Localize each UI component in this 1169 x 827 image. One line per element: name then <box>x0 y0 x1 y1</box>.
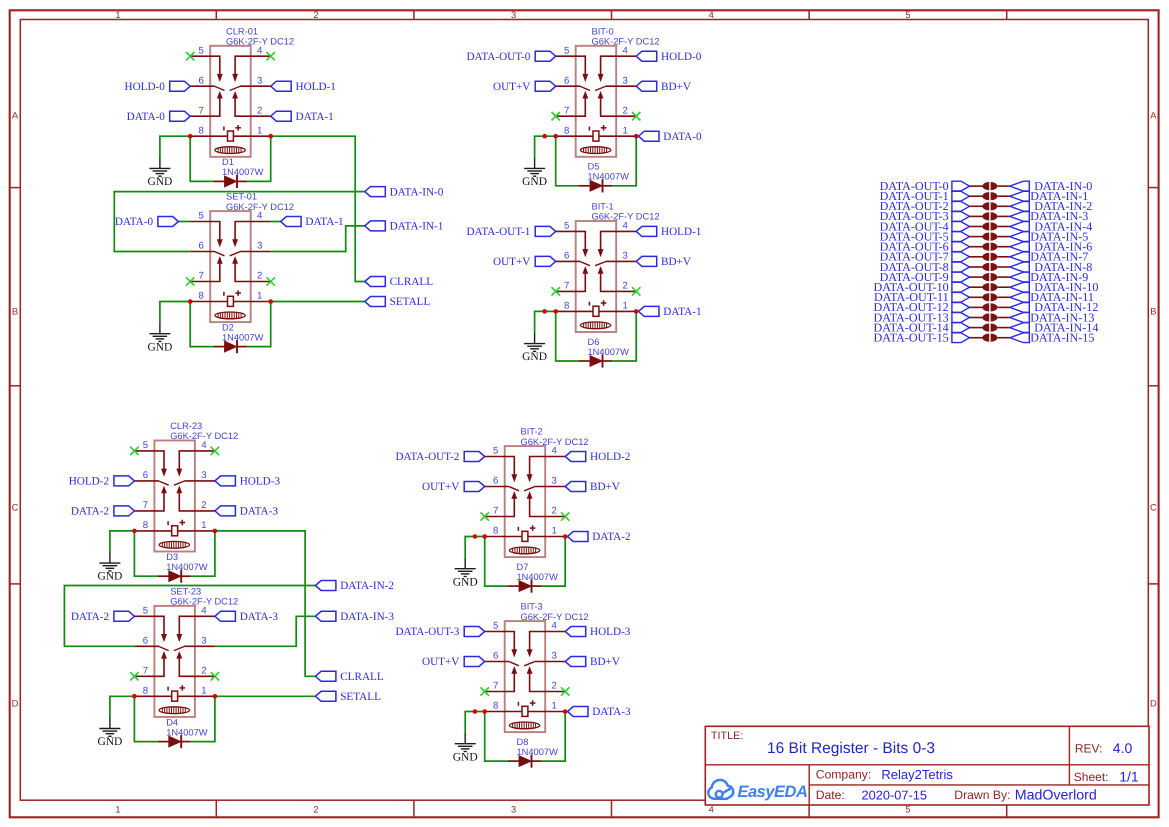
svg-text:7: 7 <box>493 681 498 692</box>
net flag DATA-IN-7 <box>1010 250 1089 264</box>
junction BIT-0 pin8 <box>553 134 558 139</box>
svg-text:2020-07-15: 2020-07-15 <box>862 788 927 803</box>
wire BIT-1 pin8 to GND <box>535 311 556 332</box>
wire DATA-OUT-10 to jumper J10 <box>970 286 983 288</box>
svg-text:4.0: 4.0 <box>1113 740 1133 756</box>
svg-text:HOLD-3: HOLD-3 <box>590 626 631 638</box>
wire DATA-OUT-8 to jumper J8 <box>970 266 983 268</box>
svg-text:REV:: REV: <box>1075 742 1103 756</box>
svg-text:DATA-IN-0: DATA-IN-0 <box>390 186 444 198</box>
net flag DATA-0 <box>639 131 702 143</box>
net flag HOLD-1 <box>271 81 336 93</box>
no-connect X (BIT-2 pin2) <box>561 512 569 520</box>
wire jumper J4 to DATA-IN-4 <box>998 226 1010 228</box>
svg-text:4: 4 <box>257 211 263 222</box>
wire DATA-IN-2 to SET-23 pin6 <box>64 586 315 647</box>
svg-text:8: 8 <box>493 526 498 537</box>
relay CLR-01 G6K-2F-Y DC12 <box>190 26 294 157</box>
svg-text:DATA-2: DATA-2 <box>71 611 109 623</box>
wire DATA-OUT-14 to jumper J14 <box>970 327 983 329</box>
svg-text:6: 6 <box>199 75 204 86</box>
wire jumper J7 to DATA-IN-7 <box>998 256 1010 258</box>
svg-text:G6K-2F-Y DC12: G6K-2F-Y DC12 <box>226 37 294 47</box>
jumper J11 (DATA-OUT-11/DATA-IN-11) <box>982 293 997 301</box>
svg-text:16 Bit Register - Bits 0-3: 16 Bit Register - Bits 0-3 <box>767 740 935 757</box>
svg-text:GND: GND <box>453 751 478 763</box>
svg-text:OUT+V: OUT+V <box>422 481 459 493</box>
junction BIT-2 GND tee <box>473 534 478 539</box>
wire jumper J1 to DATA-IN-1 <box>998 195 1010 197</box>
net flag DATA-IN-0 <box>1010 179 1093 193</box>
junction SET-23 pin1 <box>213 694 218 699</box>
net flag DATA-OUT-9 <box>880 270 970 284</box>
net flag DATA-OUT-15 <box>874 331 970 345</box>
svg-text:D4: D4 <box>166 717 178 727</box>
svg-text:G6K-2F-Y DC12: G6K-2F-Y DC12 <box>521 437 589 447</box>
wire SET-23 pin8 to D4 anode <box>134 696 157 741</box>
junction SET-01 pin1 <box>268 299 273 304</box>
svg-text:4: 4 <box>552 621 558 632</box>
svg-text:1: 1 <box>257 291 262 302</box>
svg-text:Relay2Tetris: Relay2Tetris <box>881 767 953 782</box>
svg-text:HOLD-2: HOLD-2 <box>69 476 109 488</box>
svg-text:3: 3 <box>511 10 516 20</box>
svg-text:7: 7 <box>564 105 569 116</box>
jumper J12 (DATA-OUT-12/DATA-IN-12) <box>982 303 997 311</box>
svg-text:4: 4 <box>201 440 207 451</box>
wire CLR-23 pin1 to CLRALL <box>215 531 316 676</box>
ground GND (CLR-23) <box>97 552 122 583</box>
svg-text:2: 2 <box>623 105 628 116</box>
svg-text:5: 5 <box>564 221 569 232</box>
net flag DATA-OUT-7 <box>880 250 970 264</box>
svg-text:CLRALL: CLRALL <box>390 276 434 288</box>
svg-text:DATA-3: DATA-3 <box>240 611 279 623</box>
svg-text:8: 8 <box>199 291 204 302</box>
svg-text:CLR-01: CLR-01 <box>226 26 258 36</box>
net flag OUT+V <box>422 481 485 493</box>
Date field <box>816 788 927 803</box>
svg-text:HOLD-3: HOLD-3 <box>240 476 281 488</box>
svg-text:DATA-0: DATA-0 <box>663 131 702 143</box>
svg-text:DATA-2: DATA-2 <box>71 506 109 518</box>
jumper J10 (DATA-OUT-10/DATA-IN-10) <box>982 283 997 291</box>
relay SET-23 G6K-2F-Y DC12 <box>134 586 238 717</box>
diode D2 1N4007W <box>214 322 264 353</box>
ground GND (BIT-3) <box>453 733 478 764</box>
svg-text:A: A <box>12 110 19 120</box>
svg-text:8: 8 <box>564 125 569 136</box>
net flag DATA-IN-0 <box>365 186 444 198</box>
jumper J5 (DATA-OUT-5/DATA-IN-5) <box>982 233 997 241</box>
net flag DATA-OUT-2 <box>880 199 970 213</box>
svg-text:4: 4 <box>623 221 629 232</box>
svg-text:8: 8 <box>199 125 204 136</box>
jumper J8 (DATA-OUT-8/DATA-IN-8) <box>982 263 997 271</box>
svg-text:SET-01: SET-01 <box>226 192 257 202</box>
ground GND (SET-01) <box>147 323 172 354</box>
relay BIT-3 G6K-2F-Y DC12 <box>485 602 589 733</box>
Sheet field <box>1074 769 1139 785</box>
jumper J14 (DATA-OUT-14/DATA-IN-14) <box>982 324 997 332</box>
svg-text:2: 2 <box>552 506 557 517</box>
svg-text:D: D <box>12 698 19 708</box>
net flag DATA-OUT-8 <box>880 260 970 274</box>
svg-text:HOLD-1: HOLD-1 <box>661 226 701 238</box>
svg-text:DATA-IN-1: DATA-IN-1 <box>390 221 444 233</box>
svg-text:GND: GND <box>147 176 172 188</box>
svg-text:7: 7 <box>493 506 498 517</box>
svg-text:5: 5 <box>143 606 148 617</box>
diode D3 1N4007W <box>158 552 208 583</box>
svg-text:1N4007W: 1N4007W <box>517 747 559 757</box>
wire CLR-23 pin8 to D3 anode <box>134 531 157 576</box>
REV field <box>1075 740 1133 756</box>
diode D5 1N4007W <box>579 162 629 193</box>
svg-text:DATA-0: DATA-0 <box>115 216 154 228</box>
wire jumper J13 to DATA-IN-13 <box>998 317 1010 319</box>
junction BIT-0 GND tee <box>542 134 547 139</box>
svg-text:C: C <box>1150 502 1157 512</box>
svg-text:DATA-OUT-15: DATA-OUT-15 <box>874 331 949 345</box>
net flag DATA-2 <box>71 506 135 518</box>
net flag DATA-1 <box>639 306 702 318</box>
svg-text:DATA-1: DATA-1 <box>296 111 334 123</box>
net flag OUT+V <box>493 81 556 93</box>
net flag DATA-OUT-4 <box>880 219 970 233</box>
svg-text:1N4007W: 1N4007W <box>588 172 630 182</box>
wire D2 cathode to SET-01 pin1 <box>247 302 271 347</box>
no-connect X (SET-01 pin2) <box>267 277 275 285</box>
svg-text:1: 1 <box>552 701 557 712</box>
svg-text:Company:: Company: <box>816 768 872 782</box>
wire BIT-0 pin8 to D5 anode <box>556 136 579 186</box>
svg-text:G6K-2F-Y DC12: G6K-2F-Y DC12 <box>521 612 589 622</box>
svg-text:2: 2 <box>313 10 318 20</box>
wire SET-01 pin8 to D2 anode <box>190 302 213 347</box>
wire D1 cathode to CLR-01 pin1 <box>247 136 271 181</box>
svg-text:G6K-2F-Y DC12: G6K-2F-Y DC12 <box>170 597 238 607</box>
svg-text:8: 8 <box>493 701 498 712</box>
net flag DATA-IN-5 <box>1010 229 1089 243</box>
svg-text:DATA-3: DATA-3 <box>240 506 279 518</box>
svg-text:1: 1 <box>257 125 262 136</box>
wire jumper J11 to DATA-IN-11 <box>998 296 1010 298</box>
svg-text:1N4007W: 1N4007W <box>166 727 208 737</box>
net flag DATA-OUT-12 <box>874 300 970 314</box>
svg-text:4: 4 <box>709 10 714 20</box>
wire SET-23 pin1 to SETALL <box>215 695 316 697</box>
svg-text:BD+V: BD+V <box>661 256 691 268</box>
svg-text:5: 5 <box>905 10 910 20</box>
svg-text:HOLD-2: HOLD-2 <box>590 451 630 463</box>
wire BIT-0 pin8 to GND <box>535 136 556 157</box>
relay SET-01 G6K-2F-Y DC12 <box>190 192 294 323</box>
svg-text:D2: D2 <box>222 322 234 332</box>
wire CLR-23 pin8 to GND <box>110 531 134 552</box>
Company field <box>816 767 954 782</box>
wire jumper J10 to DATA-IN-10 <box>998 286 1010 288</box>
wire BIT-2 pin8 to GND <box>465 537 485 558</box>
svg-text:GND: GND <box>522 176 547 188</box>
junction BIT-1 pin1 <box>634 309 639 314</box>
relay CLR-23 G6K-2F-Y DC12 <box>134 421 238 552</box>
wire DATA-OUT-0 to jumper J0 <box>970 185 983 187</box>
svg-text:A: A <box>1150 110 1157 120</box>
svg-text:HOLD-0: HOLD-0 <box>124 81 165 93</box>
net flag DATA-2 <box>71 611 135 623</box>
wire DATA-OUT-6 to jumper J6 <box>970 246 983 248</box>
no-connect X (BIT-3 pin7) <box>481 687 489 695</box>
svg-text:3: 3 <box>257 75 262 86</box>
net flag HOLD-3 <box>565 626 631 638</box>
svg-text:5: 5 <box>564 45 569 56</box>
junction SET-01 pin8 <box>188 299 193 304</box>
svg-text:GND: GND <box>97 571 122 583</box>
junction CLR-01 pin1 <box>268 134 273 139</box>
svg-text:DATA-IN-3: DATA-IN-3 <box>340 611 394 623</box>
net flag DATA-2 <box>568 531 631 543</box>
wire SET-01 pin4 to DATA-1 <box>271 221 281 223</box>
net flag DATA-OUT-1 <box>880 189 970 203</box>
svg-text:TITLE:: TITLE: <box>711 730 743 742</box>
svg-text:GND: GND <box>147 341 172 353</box>
svg-text:1N4007W: 1N4007W <box>588 347 630 357</box>
no-connect X (SET-23 pin2) <box>211 672 219 680</box>
svg-text:DATA-IN-2: DATA-IN-2 <box>340 580 394 592</box>
svg-text:4: 4 <box>709 804 714 814</box>
svg-text:2: 2 <box>201 666 206 677</box>
svg-text:2: 2 <box>257 271 262 282</box>
svg-text:5: 5 <box>905 804 910 814</box>
svg-text:D1: D1 <box>222 157 234 167</box>
junction CLR-23 pin1 <box>213 529 218 534</box>
svg-text:8: 8 <box>143 520 148 531</box>
wire jumper J14 to DATA-IN-14 <box>998 327 1010 329</box>
ground GND (SET-23) <box>97 718 122 749</box>
ground GND (BIT-0) <box>522 157 547 188</box>
net flag DATA-IN-1 <box>365 221 444 233</box>
net flag DATA-OUT-6 <box>880 240 970 254</box>
net flag DATA-OUT-3 <box>880 209 970 223</box>
svg-text:7: 7 <box>143 666 148 677</box>
wire D3 cathode to CLR-23 pin1 <box>191 531 215 576</box>
svg-text:4: 4 <box>623 45 629 56</box>
net flag HOLD-3 <box>215 476 281 488</box>
wire DATA-0 to SET-01 pin5 <box>178 221 190 223</box>
wire jumper J5 to DATA-IN-5 <box>998 236 1010 238</box>
diode D1 1N4007W <box>214 157 264 188</box>
wire SET-01 pin1 to SETALL <box>271 301 365 303</box>
net flag DATA-IN-3 <box>315 611 394 623</box>
wire DATA-OUT-15 to jumper J15 <box>970 337 983 339</box>
net flag DATA-IN-3 <box>1010 209 1089 223</box>
svg-text:Date:: Date: <box>816 788 845 802</box>
net flag HOLD-2 <box>565 451 630 463</box>
net flag DATA-IN-4 <box>1010 219 1093 233</box>
net flag DATA-IN-15 <box>1010 331 1095 345</box>
svg-text:4: 4 <box>257 45 263 56</box>
svg-text:BD+V: BD+V <box>661 81 691 93</box>
wire DATA-OUT-7 to jumper J7 <box>970 256 983 258</box>
wire DATA-OUT-5 to jumper J5 <box>970 236 983 238</box>
svg-text:1N4007W: 1N4007W <box>222 332 264 342</box>
svg-text:BIT-2: BIT-2 <box>521 427 543 437</box>
jumper J15 (DATA-OUT-15/DATA-IN-15) <box>982 334 997 342</box>
svg-text:5: 5 <box>199 211 204 222</box>
svg-text:D7: D7 <box>517 562 529 572</box>
net flag DATA-IN-1 <box>1010 189 1089 203</box>
wire DATA-OUT-1 to jumper J1 <box>970 195 983 197</box>
svg-text:DATA-1: DATA-1 <box>663 306 701 318</box>
diode D8 1N4007W <box>508 737 558 768</box>
svg-text:G6K-2F-Y DC12: G6K-2F-Y DC12 <box>592 37 660 47</box>
svg-text:5: 5 <box>143 440 148 451</box>
svg-text:BD+V: BD+V <box>590 656 620 668</box>
wire jumper J2 to DATA-IN-2 <box>998 205 1010 207</box>
net flag DATA-OUT-11 <box>874 290 970 304</box>
net flag BD+V <box>565 481 620 493</box>
ground GND (BIT-1) <box>522 333 547 364</box>
net flag DATA-OUT-0 <box>466 51 555 63</box>
net flag DATA-3 <box>215 506 278 518</box>
EasyEDA logo <box>708 780 807 801</box>
net flag DATA-0 <box>115 216 179 228</box>
svg-text:1: 1 <box>623 125 628 136</box>
svg-text:B: B <box>1150 306 1156 316</box>
net flag DATA-OUT-1 <box>466 226 555 238</box>
svg-text:DATA-1: DATA-1 <box>305 216 343 228</box>
svg-text:1N4007W: 1N4007W <box>166 562 208 572</box>
net flag HOLD-1 <box>636 226 701 238</box>
svg-text:1: 1 <box>115 804 120 814</box>
svg-text:5: 5 <box>199 45 204 56</box>
wire jumper J8 to DATA-IN-8 <box>998 266 1010 268</box>
svg-text:OUT+V: OUT+V <box>493 81 530 93</box>
svg-text:3: 3 <box>257 241 262 252</box>
junction BIT-3 pin8 <box>482 709 487 714</box>
svg-text:5: 5 <box>493 446 498 457</box>
wire jumper J6 to DATA-IN-6 <box>998 246 1010 248</box>
jumper J2 (DATA-OUT-2/DATA-IN-2) <box>982 202 997 210</box>
junction BIT-2 pin8 <box>482 534 487 539</box>
jumper J0 (DATA-OUT-0/DATA-IN-0) <box>982 182 997 190</box>
svg-text:OUT+V: OUT+V <box>422 656 459 668</box>
svg-text:Drawn By:: Drawn By: <box>954 788 1010 802</box>
net flag DATA-IN-2 <box>315 580 394 592</box>
svg-text:DATA-2: DATA-2 <box>592 531 630 543</box>
wire SET-23 pin8 to GND <box>110 696 134 717</box>
svg-text:6: 6 <box>143 636 148 647</box>
svg-text:G6K-2F-Y DC12: G6K-2F-Y DC12 <box>226 202 294 212</box>
wire CLR-01 pin8 to GND <box>160 136 190 157</box>
svg-text:2: 2 <box>201 500 206 511</box>
svg-text:8: 8 <box>143 686 148 697</box>
svg-text:DATA-OUT-1: DATA-OUT-1 <box>466 226 530 238</box>
junction SET-23 pin8 <box>132 694 137 699</box>
svg-text:1N4007W: 1N4007W <box>517 572 559 582</box>
jumper J6 (DATA-OUT-6/DATA-IN-6) <box>982 243 997 251</box>
svg-text:CLR-23: CLR-23 <box>170 421 202 431</box>
wire DATA-OUT-3 to jumper J3 <box>970 215 983 217</box>
wire D4 cathode to SET-23 pin1 <box>191 696 215 741</box>
junction BIT-3 pin1 <box>563 709 568 714</box>
svg-text:DATA-3: DATA-3 <box>592 706 631 718</box>
wire D7 cathode to BIT-2 pin1 <box>541 537 565 587</box>
svg-text:5: 5 <box>493 621 498 632</box>
svg-text:6: 6 <box>493 651 498 662</box>
wire DATA-OUT-11 to jumper J11 <box>970 296 983 298</box>
jumper J7 (DATA-OUT-7/DATA-IN-7) <box>982 253 997 261</box>
junction CLR-01 pin8 <box>188 134 193 139</box>
svg-text:3: 3 <box>201 470 206 481</box>
net flag HOLD-2 <box>69 476 135 488</box>
wire D6 cathode to BIT-1 pin1 <box>612 311 636 361</box>
svg-text:OUT+V: OUT+V <box>493 256 530 268</box>
wire jumper J15 to DATA-IN-15 <box>998 337 1010 339</box>
svg-text:3: 3 <box>552 476 557 487</box>
svg-text:DATA-OUT-3: DATA-OUT-3 <box>395 626 459 638</box>
svg-text:DATA-OUT-2: DATA-OUT-2 <box>395 451 459 463</box>
net flag DATA-IN-6 <box>1010 240 1093 254</box>
net flag SETALL <box>365 296 431 308</box>
net flag DATA-OUT-13 <box>874 310 970 324</box>
svg-text:CLRALL: CLRALL <box>340 671 384 683</box>
svg-text:6: 6 <box>564 75 569 86</box>
junction BIT-1 pin8 <box>553 309 558 314</box>
svg-text:2: 2 <box>623 281 628 292</box>
no-connect X (BIT-3 pin2) <box>561 687 569 695</box>
wire jumper J12 to DATA-IN-12 <box>998 306 1010 308</box>
wire SET-01 pin8 to GND <box>160 302 190 323</box>
junction BIT-0 pin1 <box>634 134 639 139</box>
no-connect X (BIT-1 pin2) <box>632 287 640 295</box>
net flag DATA-IN-13 <box>1010 310 1095 324</box>
jumper J1 (DATA-OUT-1/DATA-IN-1) <box>982 192 997 200</box>
wire DATA-OUT-2 to jumper J2 <box>970 205 983 207</box>
svg-text:3: 3 <box>511 804 516 814</box>
wire DATA-OUT-9 to jumper J9 <box>970 276 983 278</box>
wire DATA-IN-0 to SET-01 pin6 <box>114 192 364 252</box>
svg-text:DATA-IN-15: DATA-IN-15 <box>1030 331 1094 345</box>
svg-text:1/1: 1/1 <box>1119 769 1139 785</box>
no-connect X (CLR-01 pin5) <box>186 52 194 60</box>
svg-text:3: 3 <box>623 251 628 262</box>
net flag OUT+V <box>422 656 485 668</box>
svg-text:4: 4 <box>552 446 558 457</box>
jumper J4 (DATA-OUT-4/DATA-IN-4) <box>982 222 997 230</box>
ground GND (BIT-2) <box>453 558 478 589</box>
net flag SETALL <box>315 691 381 703</box>
svg-text:G6K-2F-Y DC12: G6K-2F-Y DC12 <box>592 212 660 222</box>
wire D5 cathode to BIT-0 pin1 <box>612 136 636 186</box>
wire CLR-01 pin1 to CLRALL <box>271 136 365 281</box>
title block <box>705 726 1149 805</box>
svg-text:BD+V: BD+V <box>590 481 620 493</box>
svg-text:D6: D6 <box>588 337 600 347</box>
wire jumper J0 to DATA-IN-0 <box>998 185 1010 187</box>
net flag DATA-1 <box>271 111 334 123</box>
svg-text:4: 4 <box>201 606 207 617</box>
net flag DATA-OUT-0 <box>880 179 970 193</box>
svg-text:G6K-2F-Y DC12: G6K-2F-Y DC12 <box>170 431 238 441</box>
net flag DATA-IN-12 <box>1010 300 1099 314</box>
wire BIT-2 pin8 to D7 anode <box>485 537 508 587</box>
svg-text:SETALL: SETALL <box>390 296 431 308</box>
svg-text:1: 1 <box>623 301 628 312</box>
wire BIT-1 pin8 to D6 anode <box>556 311 579 361</box>
svg-text:6: 6 <box>143 470 148 481</box>
